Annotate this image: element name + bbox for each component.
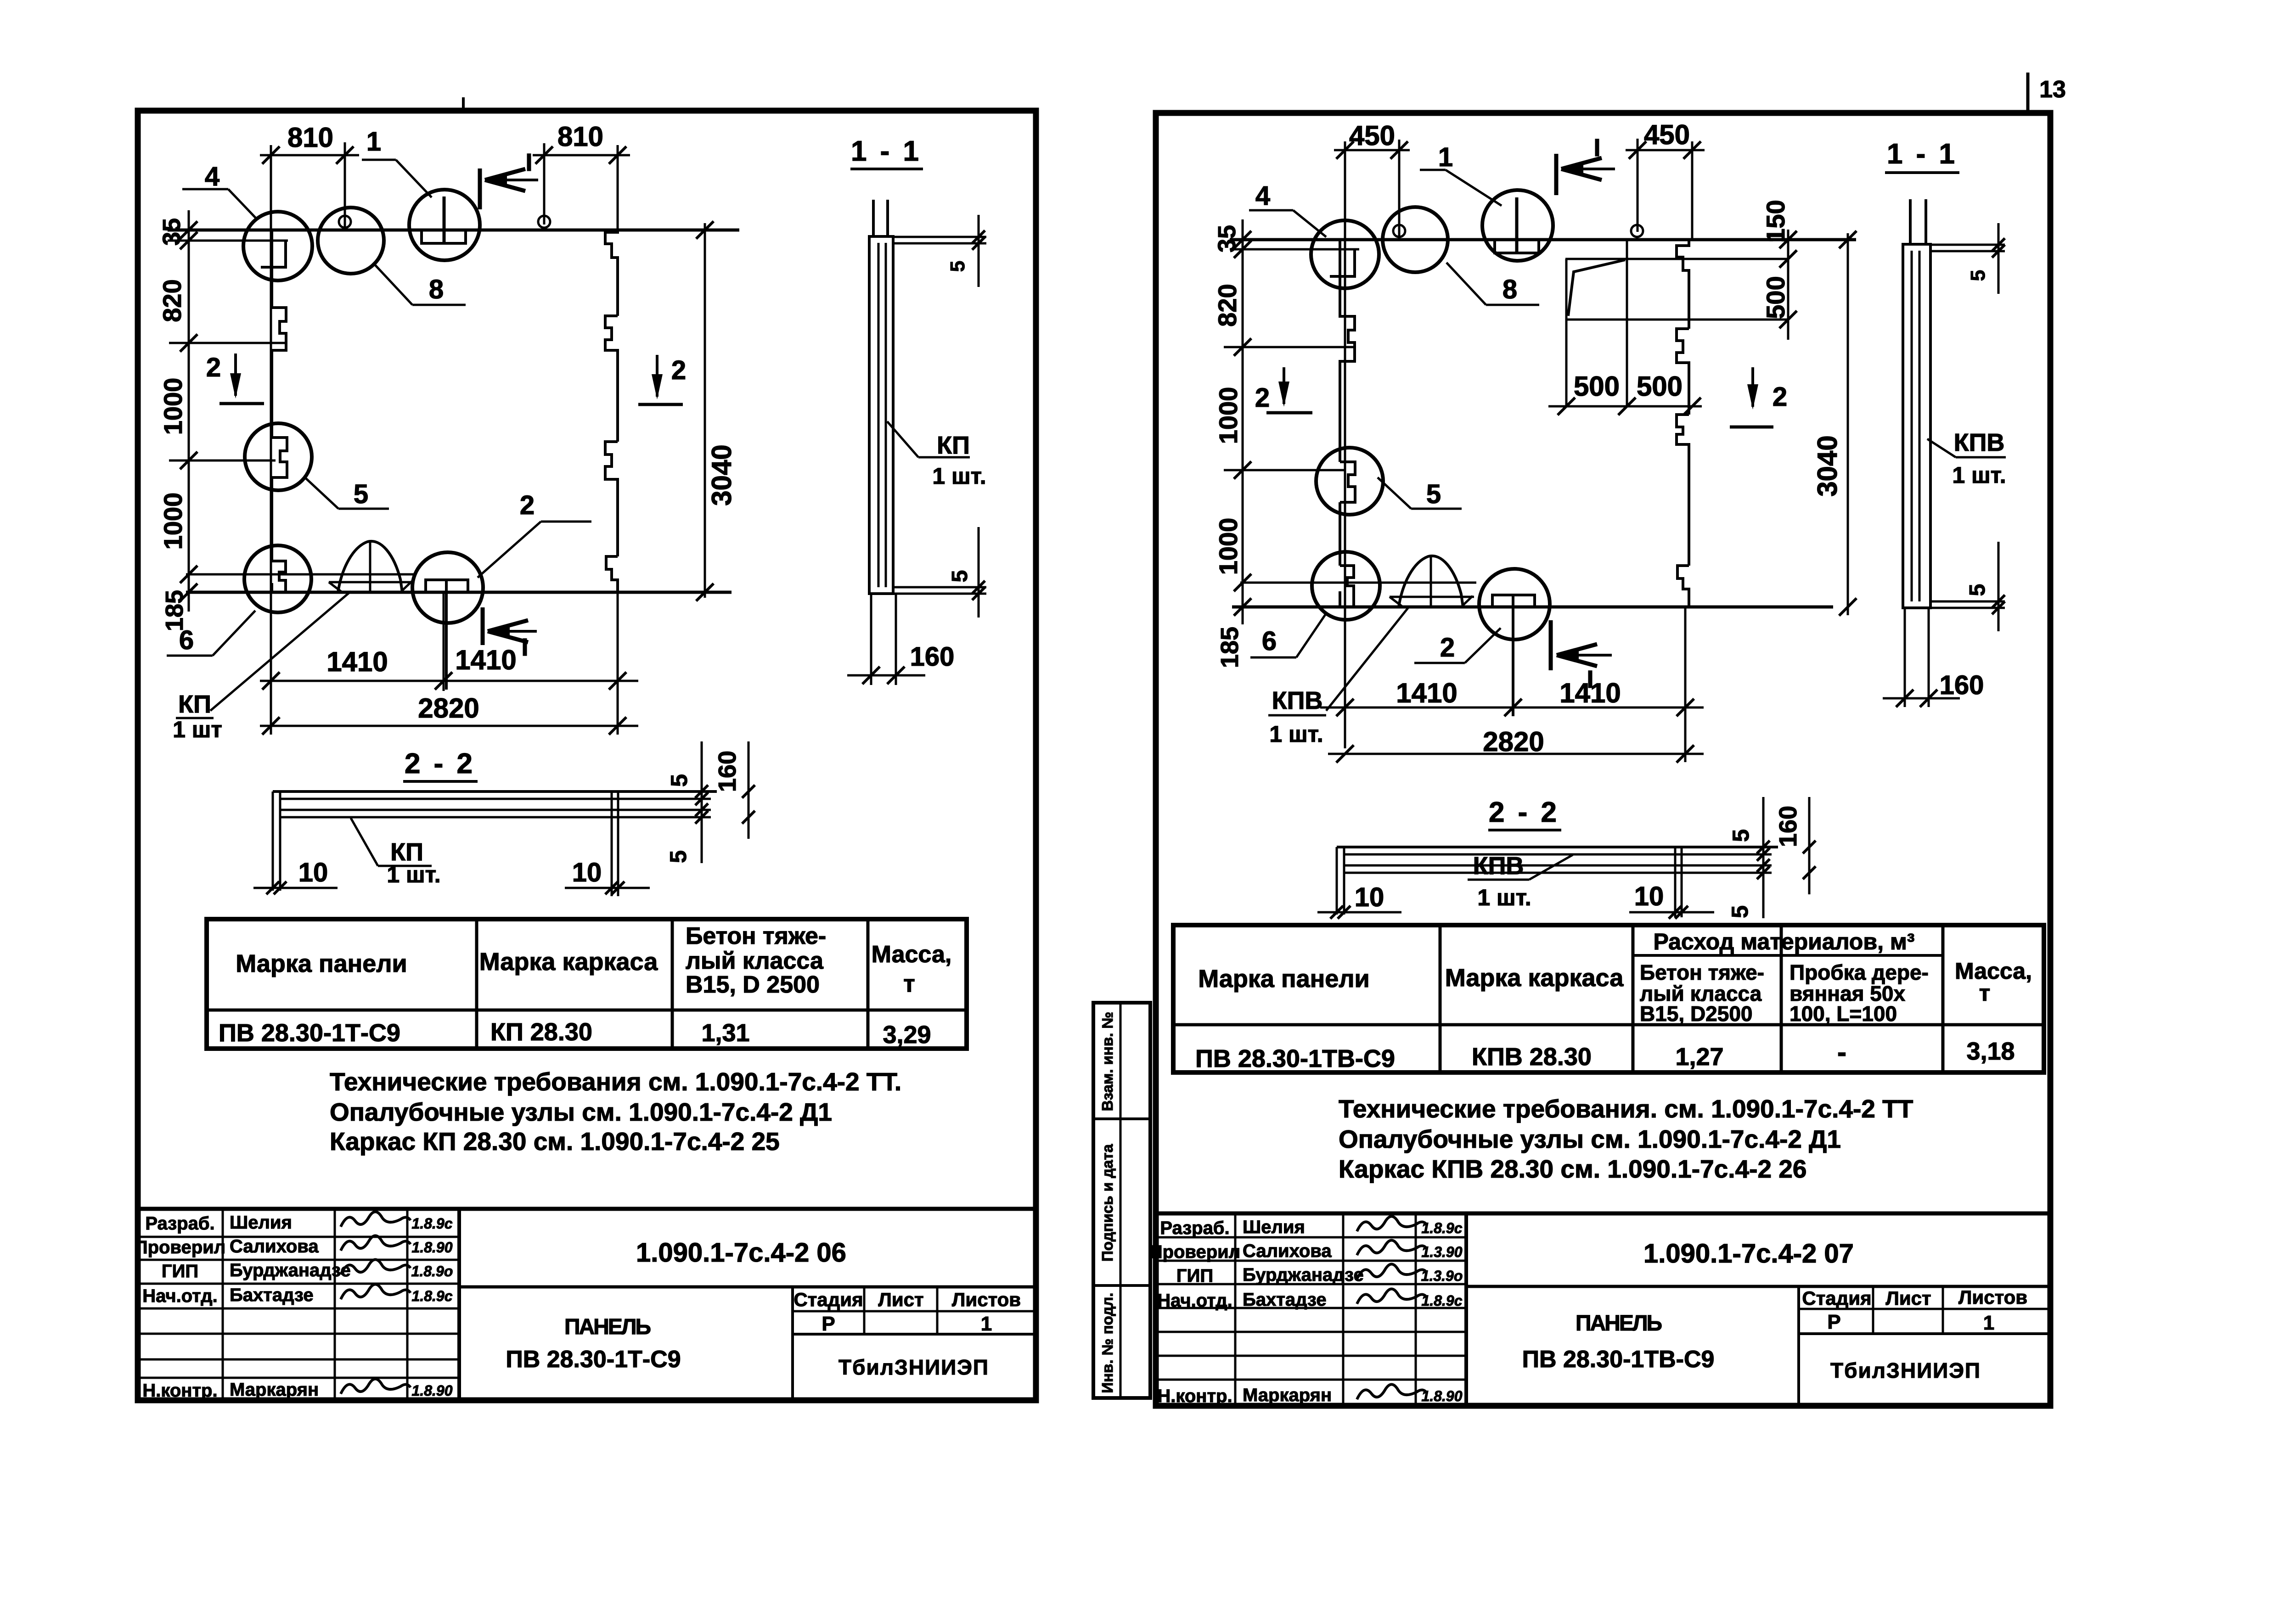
left plan dimension 2820	[617, 592, 619, 735]
svg-text:Р: Р	[822, 1313, 835, 1335]
left plan: left dimension chain line	[188, 210, 190, 612]
svg-text:8: 8	[1503, 275, 1517, 304]
right 1-1 top flange	[1930, 244, 2005, 246]
svg-text:КП: КП	[937, 432, 970, 459]
svg-text:КПВ: КПВ	[1954, 429, 2005, 456]
svg-text:5: 5	[1967, 270, 1989, 281]
left 1-1 dimension 160	[870, 594, 872, 685]
svg-text:Марка панели: Марка панели	[236, 950, 407, 977]
right plan: panel bottom edge	[1232, 606, 1833, 609]
svg-text:1410: 1410	[455, 645, 516, 675]
svg-text:1.8.9о: 1.8.9о	[411, 1263, 453, 1280]
right plan: lifting hump	[1399, 556, 1463, 607]
svg-text:160: 160	[714, 751, 741, 792]
left plan: left edge notch detail in circle 5	[272, 438, 287, 477]
svg-text:Бурджанадзе: Бурджанадзе	[230, 1260, 351, 1280]
svg-text:Салихова: Салихова	[1243, 1241, 1332, 1261]
svg-text:5: 5	[666, 774, 692, 787]
svg-text:т: т	[903, 971, 915, 997]
svg-text:10: 10	[298, 858, 328, 887]
svg-text:Маркарян: Маркарян	[1243, 1385, 1332, 1405]
svg-text:Н.контр.: Н.контр.	[1157, 1386, 1232, 1406]
left table frame	[207, 919, 967, 1049]
svg-text:Салихова: Салихова	[230, 1236, 319, 1257]
svg-text:450: 450	[1349, 120, 1395, 151]
left plan: top inner 35 line	[168, 240, 288, 242]
svg-text:160: 160	[1940, 670, 1984, 700]
right plan: detail circle 2 bottom slot	[1479, 569, 1550, 640]
right title block doc number cell	[1466, 1285, 2049, 1288]
page number 13	[2026, 73, 2030, 113]
svg-text:2: 2	[1773, 382, 1787, 412]
svg-text:ПВ 28.30-1ТВ-С9: ПВ 28.30-1ТВ-С9	[1522, 1346, 1715, 1373]
svg-text:1.3.9о: 1.3.9о	[1421, 1268, 1463, 1284]
right plan: dim 150 vertical	[1787, 230, 1790, 340]
right 1-1 bottom flange	[1930, 601, 2005, 603]
left plan: dimension 810 right	[543, 143, 546, 225]
svg-text:3,18: 3,18	[1966, 1038, 2015, 1065]
right plan: dimension 450 right	[1637, 139, 1639, 232]
svg-text:100, L=100: 100, L=100	[1790, 1002, 1897, 1026]
svg-text:Нач.отд.: Нач.отд.	[142, 1286, 217, 1306]
svg-text:5: 5	[948, 570, 972, 583]
svg-text:Разраб.: Разраб.	[1160, 1218, 1229, 1238]
svg-text:1.8.90: 1.8.90	[412, 1239, 453, 1256]
right plan: pin circle right	[1631, 225, 1643, 237]
svg-text:Проверил: Проверил	[135, 1237, 225, 1257]
svg-text:т: т	[1979, 980, 1991, 1006]
svg-text:5: 5	[665, 850, 691, 863]
svg-text:Листов: Листов	[1958, 1286, 2027, 1308]
left plan dimension 3040	[704, 223, 706, 598]
svg-text:1 шт: 1 шт	[173, 717, 222, 742]
right plan: left edge notch in circle 5	[1340, 462, 1355, 502]
svg-text:185: 185	[1216, 627, 1244, 668]
svg-text:500: 500	[1637, 371, 1683, 402]
svg-text:ПАНЕЛЬ: ПАНЕЛЬ	[1576, 1311, 1662, 1336]
svg-text:I: I	[521, 634, 528, 661]
svg-text:1 шт.: 1 шт.	[932, 463, 986, 489]
svg-text:1.8.9с: 1.8.9с	[1422, 1220, 1463, 1236]
svg-text:Листов: Листов	[952, 1289, 1021, 1310]
svg-text:10: 10	[1355, 882, 1384, 912]
right margin boxes	[1093, 1003, 1150, 1398]
right plan: panel top edge	[1230, 238, 1856, 241]
svg-text:Н.контр.: Н.контр.	[142, 1381, 217, 1401]
svg-text:2820: 2820	[1483, 726, 1544, 757]
svg-text:1.8.9с: 1.8.9с	[412, 1215, 453, 1232]
svg-text:Бахтадзе: Бахтадзе	[230, 1285, 314, 1305]
left plan: panel left edge with notches	[272, 230, 286, 438]
svg-text:Опалубочные узлы см. 1.090.1-7: Опалубочные узлы см. 1.090.1-7с.4-2 Д1	[1339, 1125, 1841, 1153]
svg-text:1000: 1000	[158, 493, 187, 550]
right plan: detail circle 6 bottom-left	[1312, 552, 1380, 620]
svg-text:КП: КП	[178, 690, 211, 718]
svg-text:Инв. № подл.: Инв. № подл.	[1099, 1293, 1116, 1393]
svg-text:10: 10	[572, 858, 602, 887]
left plan: panel bottom edge	[186, 591, 732, 594]
svg-text:10: 10	[1634, 881, 1664, 911]
left 1-1 panel body	[869, 236, 893, 594]
svg-text:1410: 1410	[1396, 678, 1457, 708]
svg-text:5: 5	[946, 261, 969, 272]
left title block doc number cell	[459, 1285, 1035, 1289]
left plan: dimension 810 left	[270, 145, 272, 735]
svg-text:1 шт.: 1 шт.	[387, 862, 440, 887]
left title block row lines	[138, 1236, 459, 1238]
svg-text:1,31: 1,31	[701, 1019, 749, 1047]
right 1-1 rebar stubs	[1909, 199, 1912, 244]
svg-text:Масса,: Масса,	[1955, 958, 2032, 984]
svg-text:1 шт.: 1 шт.	[1477, 885, 1531, 910]
svg-text:1: 1	[366, 127, 381, 157]
svg-text:лый класса: лый класса	[686, 948, 824, 974]
left title block frame	[138, 1207, 1035, 1211]
right plan section cut I top	[1554, 154, 1559, 195]
svg-text:Стадия: Стадия	[1802, 1287, 1871, 1309]
left plan: detail circle 8 plug	[318, 208, 384, 274]
svg-text:Технические требования см. 1.0: Технические требования см. 1.090.1-7с.4-…	[330, 1067, 901, 1096]
left 1-1 bottom flange	[893, 586, 986, 589]
right 2-2 slab	[1337, 846, 1778, 848]
svg-text:В15, D2500: В15, D2500	[1640, 1002, 1753, 1026]
right 1-1 label KPV	[1927, 439, 1956, 457]
svg-text:500: 500	[1574, 371, 1620, 402]
left plan section cut I bottom	[481, 607, 485, 645]
svg-text:ТбилЗНИИЭП: ТбилЗНИИЭП	[1830, 1358, 1981, 1382]
svg-text:35: 35	[1213, 225, 1241, 253]
svg-text:5: 5	[1727, 905, 1753, 918]
left plan: panel right edge with notches	[605, 230, 618, 316]
svg-text:1.8.90: 1.8.90	[1422, 1388, 1463, 1404]
right 1-1 inner frame lines	[1911, 251, 1913, 601]
right 2-2 right leg	[1674, 847, 1677, 917]
right title block stadia table	[1799, 1308, 2049, 1310]
svg-text:1 - 1: 1 - 1	[851, 135, 922, 167]
right plan: dim 500 500 horizontal	[1548, 405, 1702, 408]
right plan: top inner 35 line	[1230, 248, 1359, 251]
svg-text:ГИП: ГИП	[162, 1261, 198, 1281]
svg-text:4: 4	[205, 162, 219, 191]
right plan: pin circle left	[1393, 225, 1405, 237]
left 2-2 slab	[273, 790, 717, 793]
right 1-1 panel body	[1903, 244, 1930, 608]
svg-text:Подпись и дата: Подпись и дата	[1099, 1144, 1116, 1262]
left 2-2 dim 5 and 160 right side	[701, 741, 703, 863]
right plan: detail circle 5 mid-left	[1316, 448, 1383, 515]
svg-text:Каркас КПВ 28.30 см. 1.090.1-7: Каркас КПВ 28.30 см. 1.090.1-7с.4-2 26	[1339, 1155, 1807, 1183]
right plan: panel right edge with notches	[1677, 240, 1689, 329]
svg-text:2: 2	[206, 353, 221, 382]
svg-text:160: 160	[1774, 806, 1802, 847]
svg-text:3,29: 3,29	[883, 1021, 931, 1049]
svg-text:Бахтадзе: Бахтадзе	[1243, 1290, 1327, 1310]
svg-text:Разраб.: Разраб.	[145, 1213, 214, 1234]
svg-text:КПВ 28.30: КПВ 28.30	[1472, 1043, 1592, 1071]
left plan: pin circle right	[538, 216, 550, 228]
svg-text:1.090.1-7с.4-2 06: 1.090.1-7с.4-2 06	[636, 1238, 846, 1268]
left plan: detail circle 6 bottom-left	[244, 545, 311, 612]
right title block name cell	[1797, 1286, 1800, 1406]
svg-text:2 - 2: 2 - 2	[405, 748, 475, 780]
right title block frame	[1156, 1212, 2049, 1216]
svg-text:1.8.9с: 1.8.9с	[412, 1288, 453, 1304]
right 1-1 dimension 160	[1904, 608, 1906, 707]
left plan section cut I top	[478, 168, 482, 209]
svg-text:Бетон тяже-: Бетон тяже-	[1640, 960, 1764, 984]
svg-text:Р: Р	[1827, 1311, 1840, 1333]
left plan: detail circle 5 mid-left	[245, 423, 312, 490]
svg-text:3040: 3040	[1812, 435, 1843, 496]
svg-text:Нач.отд.: Нач.отд.	[1157, 1291, 1232, 1311]
svg-text:-: -	[1837, 1037, 1846, 1067]
svg-text:I: I	[1593, 134, 1600, 162]
svg-text:6: 6	[179, 625, 194, 655]
svg-text:1 шт.: 1 шт.	[1952, 462, 2006, 488]
svg-text:КПВ: КПВ	[1272, 687, 1323, 714]
svg-text:Взам. инв. №: Взам. инв. №	[1099, 1012, 1116, 1111]
svg-text:1: 1	[981, 1313, 992, 1335]
svg-text:КПВ: КПВ	[1473, 852, 1524, 880]
svg-text:2: 2	[1255, 383, 1270, 413]
svg-text:150: 150	[1761, 200, 1790, 242]
svg-text:ГИП: ГИП	[1176, 1266, 1213, 1286]
svg-text:ТбилЗНИИЭП: ТбилЗНИИЭП	[838, 1355, 989, 1379]
right plan: detail circle 8 plug	[1383, 207, 1448, 272]
right table header raskhod	[1633, 954, 1943, 957]
svg-text:1000: 1000	[1214, 387, 1243, 444]
svg-text:1.3.90: 1.3.90	[1422, 1244, 1463, 1260]
left plan: lifting hump	[338, 541, 402, 592]
svg-text:Лист: Лист	[878, 1289, 923, 1310]
svg-text:820: 820	[1213, 284, 1242, 326]
svg-text:Масса,: Масса,	[872, 941, 952, 968]
svg-text:1: 1	[1983, 1312, 1994, 1334]
right plan: left dimension chain	[1242, 219, 1244, 624]
svg-text:ПВ 28.30-1Т-С9: ПВ 28.30-1Т-С9	[506, 1346, 681, 1373]
svg-text:Лист: Лист	[1885, 1287, 1931, 1309]
svg-text:1 - 1: 1 - 1	[1887, 138, 1958, 170]
right plan: panel left edge with notches	[1340, 240, 1355, 462]
svg-text:ПВ 28.30-1ТВ-С9: ПВ 28.30-1ТВ-С9	[1195, 1045, 1395, 1072]
right plan: left edge notch in circle 4	[1340, 566, 1354, 607]
svg-text:1410: 1410	[326, 646, 388, 677]
right plan: inner bottom 185 line	[1240, 582, 1399, 584]
svg-text:1.8.90: 1.8.90	[412, 1382, 453, 1399]
svg-text:1: 1	[1438, 142, 1453, 172]
scan tick above left sheet	[462, 97, 465, 112]
svg-text:Технические требования. см. 1.: Технические требования. см. 1.090.1-7с.4…	[1339, 1095, 1913, 1123]
left plan: inner bottom 185 line	[186, 573, 338, 576]
right title block row lines	[1156, 1236, 1466, 1239]
left sheet frame	[138, 111, 1036, 1400]
right 2-2 left leg	[1336, 847, 1338, 915]
svg-text:2 - 2: 2 - 2	[1489, 797, 1559, 828]
svg-text:6: 6	[1262, 626, 1277, 656]
left plan: panel top edge	[168, 229, 739, 232]
svg-text:В15, D 2500: В15, D 2500	[686, 971, 820, 998]
svg-text:Пробка дере-: Пробка дере-	[1790, 960, 1929, 984]
svg-text:2820: 2820	[418, 693, 479, 724]
svg-text:Стадия: Стадия	[793, 1289, 863, 1310]
left 1-1 label KP	[887, 421, 918, 457]
svg-text:1 шт.: 1 шт.	[1269, 721, 1323, 747]
svg-text:Марка панели: Марка панели	[1198, 965, 1370, 993]
svg-text:5: 5	[354, 479, 368, 509]
left title block name cell	[791, 1287, 794, 1400]
svg-text:Марка каркаса: Марка каркаса	[1445, 964, 1624, 992]
right plan section cut I bottom	[1549, 620, 1553, 670]
svg-text:Опалубочные узлы см. 1.090.1-7: Опалубочные узлы см. 1.090.1-7с.4-2 Д1	[330, 1098, 832, 1126]
svg-text:1.090.1-7с.4-2 07: 1.090.1-7с.4-2 07	[1643, 1239, 1854, 1269]
svg-text:2: 2	[1440, 633, 1455, 662]
left plan: pin circle left	[339, 216, 351, 228]
svg-text:500: 500	[1761, 276, 1790, 319]
right plan: corner cutout box	[1565, 258, 1788, 260]
svg-text:5: 5	[1728, 829, 1754, 842]
left title block signature squiggles	[341, 1212, 411, 1227]
svg-text:КП 28.30: КП 28.30	[490, 1018, 592, 1046]
svg-text:2: 2	[520, 490, 535, 520]
svg-text:160: 160	[910, 642, 955, 672]
left 1-1 inner frame lines	[878, 243, 880, 587]
right plan: dimension 450 left	[1344, 141, 1346, 748]
right table frame	[1173, 925, 2044, 1072]
svg-text:Марка каркаса: Марка каркаса	[479, 948, 658, 976]
svg-text:Проверил: Проверил	[1149, 1242, 1240, 1262]
left 1-1 rebar stubs	[872, 200, 875, 236]
svg-text:1410: 1410	[1559, 678, 1621, 708]
left 1-1 top flange	[893, 236, 986, 238]
svg-text:ПАНЕЛЬ: ПАНЕЛЬ	[564, 1315, 651, 1339]
svg-text:8: 8	[429, 275, 444, 304]
right sheet frame	[1156, 113, 2050, 1406]
right plan: detail circle 4 top-left	[1311, 220, 1379, 288]
svg-text:1.8.9с: 1.8.9с	[1422, 1292, 1463, 1309]
left plan: detail circle 4 top-left	[243, 212, 312, 281]
svg-text:5: 5	[1426, 479, 1441, 509]
left plan dimension 1410 1410	[443, 592, 445, 691]
right plan dimension 3040	[1847, 233, 1849, 615]
left plan: detail circle 2 bottom slot	[412, 552, 483, 623]
svg-text:3040: 3040	[706, 444, 737, 505]
svg-text:I: I	[525, 149, 532, 176]
left title block stadia table	[793, 1310, 1035, 1313]
svg-text:1,27: 1,27	[1675, 1043, 1723, 1071]
left 2-2 left leg	[272, 791, 274, 891]
left 2-2 right leg	[611, 791, 613, 896]
svg-text:4: 4	[1255, 181, 1270, 211]
svg-text:820: 820	[158, 279, 186, 322]
svg-text:1000: 1000	[158, 378, 187, 435]
svg-text:Расход материалов, м³: Расход материалов, м³	[1653, 929, 1914, 954]
right 2-2 dim 5 and 160 right side	[1762, 797, 1765, 918]
svg-text:1000: 1000	[1214, 518, 1243, 575]
svg-text:ПВ 28.30-1Т-С9: ПВ 28.30-1Т-С9	[219, 1019, 400, 1047]
svg-text:35: 35	[158, 218, 186, 246]
svg-text:450: 450	[1644, 119, 1690, 150]
svg-text:Маркарян: Маркарян	[230, 1380, 319, 1400]
svg-text:Бурджанадзе: Бурджанадзе	[1243, 1265, 1364, 1285]
svg-text:Бетон тяже-: Бетон тяже-	[686, 923, 826, 949]
svg-text:Шелия: Шелия	[1243, 1217, 1305, 1237]
svg-text:13: 13	[2039, 76, 2066, 103]
right plan dimension 2820	[1328, 753, 1704, 755]
right plan dimension 1410 1410	[1684, 607, 1687, 762]
svg-text:5: 5	[1965, 584, 1990, 596]
right plan: detail circle 1 top slot	[1482, 190, 1553, 261]
svg-text:810: 810	[287, 122, 333, 153]
svg-text:Каркас КП 28.30 см. 1.090.1-7с: Каркас КП 28.30 см. 1.090.1-7с.4-2 25	[330, 1127, 780, 1156]
svg-text:2: 2	[671, 355, 686, 385]
svg-text:Шелия: Шелия	[230, 1212, 292, 1233]
left plan: left edge notch detail in circle 4	[272, 561, 286, 592]
svg-text:810: 810	[557, 121, 603, 152]
left plan: detail circle 1 top slot	[409, 190, 480, 260]
